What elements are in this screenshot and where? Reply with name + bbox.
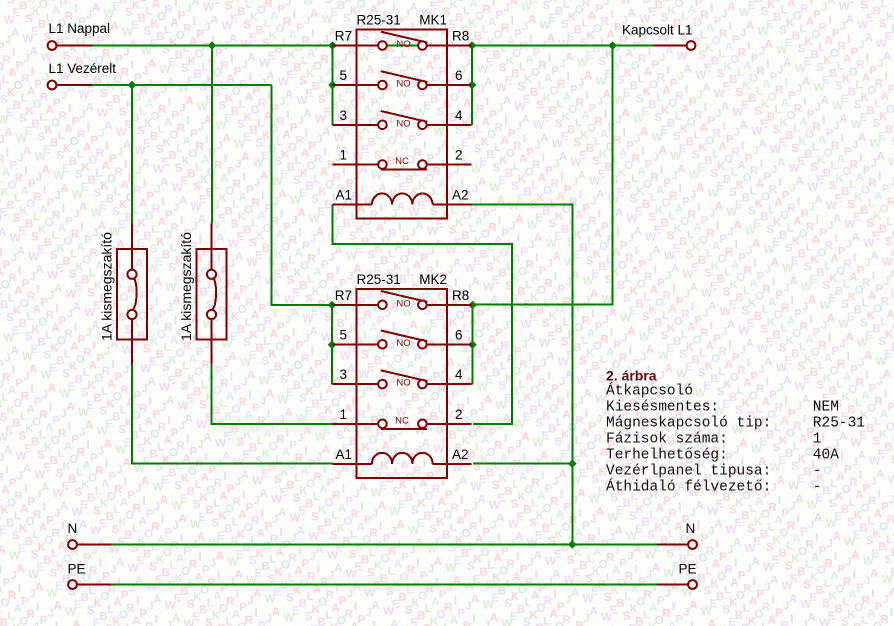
svg-text:R25-31: R25-31 (357, 272, 401, 287)
svg-text:3: 3 (339, 367, 347, 382)
svg-text:Terhelhetőség:: Terhelhetőség: (606, 448, 728, 464)
svg-text:PE: PE (679, 562, 697, 577)
svg-text:A2: A2 (452, 447, 469, 462)
svg-text:PE: PE (68, 562, 86, 577)
svg-text:L1 Nappal: L1 Nappal (49, 21, 111, 36)
svg-text:R7: R7 (335, 288, 352, 303)
svg-text:4: 4 (455, 367, 463, 382)
svg-text:Kapcsolt L1: Kapcsolt L1 (622, 23, 693, 38)
svg-text:R25-31: R25-31 (357, 13, 401, 28)
svg-text:2: 2 (455, 148, 463, 163)
svg-text:1: 1 (339, 148, 347, 163)
svg-text:Kiesésmentes:: Kiesésmentes: (606, 400, 719, 416)
svg-text:1: 1 (813, 432, 822, 448)
svg-text:Áthidaló félvezető:: Áthidaló félvezető: (606, 478, 771, 496)
svg-text:NC: NC (395, 156, 409, 167)
svg-text:NO: NO (396, 378, 410, 389)
svg-text:R7: R7 (335, 29, 352, 44)
svg-text:NO: NO (396, 118, 410, 129)
svg-text:Vezérlpanel tipusa:: Vezérlpanel tipusa: (606, 464, 771, 480)
svg-text:R8: R8 (452, 288, 469, 303)
svg-text:NO: NO (396, 338, 410, 349)
svg-text:2. árbra: 2. árbra (606, 368, 657, 384)
svg-text:MK2: MK2 (419, 272, 447, 287)
svg-text:MK1: MK1 (419, 13, 447, 28)
svg-text:4: 4 (455, 108, 463, 123)
svg-text:A1: A1 (335, 188, 352, 203)
svg-text:6: 6 (455, 68, 463, 83)
svg-text:A2: A2 (452, 188, 469, 203)
svg-text:1: 1 (339, 407, 347, 422)
svg-text:1A kismegszakító: 1A kismegszakító (178, 232, 194, 341)
svg-text:N: N (686, 521, 696, 536)
svg-text:Fázisok száma:: Fázisok száma: (606, 432, 728, 448)
svg-text:R8: R8 (452, 29, 469, 44)
svg-text:NO: NO (396, 298, 410, 309)
svg-text:R25-31: R25-31 (813, 416, 865, 432)
svg-text:-: - (813, 480, 822, 496)
svg-text:A1: A1 (335, 447, 352, 462)
svg-text:5: 5 (339, 68, 347, 83)
svg-text:NEM: NEM (813, 400, 839, 416)
svg-text:-: - (813, 464, 822, 480)
svg-text:N: N (68, 521, 78, 536)
svg-text:NO: NO (396, 79, 410, 90)
svg-text:NC: NC (395, 415, 409, 426)
svg-text:NO: NO (396, 39, 410, 50)
svg-text:Átkapcsoló: Átkapcsoló (606, 382, 693, 400)
svg-text:1A kismegszakító: 1A kismegszakító (99, 232, 115, 341)
svg-text:L1 Vezérelt: L1 Vezérelt (49, 61, 117, 76)
svg-text:6: 6 (455, 327, 463, 342)
svg-text:40A: 40A (813, 448, 839, 464)
svg-text:5: 5 (339, 327, 347, 342)
svg-text:3: 3 (339, 108, 347, 123)
svg-text:2: 2 (455, 407, 463, 422)
svg-text:Mágneskapcsoló tip:: Mágneskapcsoló tip: (606, 416, 771, 432)
